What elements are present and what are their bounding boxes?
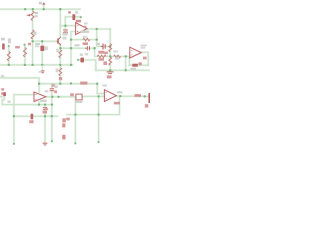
node feedback1 bbox=[70, 38, 72, 40]
wire bias drop x125.7 bbox=[125, 56, 127, 70]
wire output branch x96.7 bbox=[97, 29, 111, 46]
ground GND3 bottom bbox=[43, 143, 48, 145]
wire cap3 bottom vertical bbox=[44, 110, 46, 143]
label grey above fb resistor bbox=[83, 36, 88, 38]
wire chain2 vertical bbox=[24, 45, 26, 65]
label red left x110 upper bbox=[104, 52, 107, 55]
op-amp U1A bbox=[76, 23, 87, 35]
label r2 grey bbox=[33, 32, 36, 35]
opamp1 input polarity marks bbox=[77, 26, 79, 33]
opamp2L marks bbox=[35, 94, 37, 99]
label red below R7 bbox=[98, 58, 104, 60]
wire opamp3 output bbox=[116, 95, 148, 97]
capacitor C2 plates bbox=[63, 30, 68, 34]
label grey above R8 bbox=[113, 50, 117, 52]
wire ground bus y70.3 bbox=[96, 69, 150, 71]
wire vref bus y83.7 bbox=[39, 83, 97, 85]
wire drop x94.6 bbox=[95, 48, 130, 56]
label red below out3 bbox=[114, 102, 120, 105]
wire feedback2 stub bbox=[128, 58, 130, 65]
wire opamp1 plus input bbox=[60, 25, 75, 27]
wire output drop x110 bbox=[109, 29, 111, 70]
label grey cap6 right bbox=[54, 85, 57, 88]
wire opamp2R output bbox=[141, 52, 148, 65]
resistor R3 box bbox=[40, 46, 44, 51]
wire box2 to opamp3 bbox=[82, 95, 104, 97]
node rail2 dots bbox=[8, 64, 10, 66]
resistor R6 vertical zigzag (x110 lower) bbox=[109, 57, 112, 65]
ground GND2 (below rail2) bbox=[41, 71, 45, 73]
wire pot chain vertical bbox=[31, 9, 33, 65]
label grey above pin1 bbox=[8, 38, 11, 43]
wire output branch x96.7 bbox=[97, 29, 111, 46]
label red below right connector bbox=[145, 104, 149, 107]
wire cap4 stub top bbox=[51, 84, 53, 89]
connector right edge bbox=[148, 93, 150, 103]
label grey above cap4 bbox=[96, 43, 100, 45]
label grey above left box bbox=[1, 38, 5, 41]
wire chain1 vertical bbox=[8, 46, 10, 65]
box component B1 (open box) bbox=[76, 94, 82, 100]
capacitor C5 feedback2 box bbox=[132, 64, 138, 67]
label grey below R8 bbox=[115, 57, 119, 59]
wire y114.6 bbox=[67, 96, 120, 115]
wire box chain vertical bbox=[41, 41, 43, 65]
wire cap1 stub bbox=[64, 26, 66, 30]
label red left of y114 wire bbox=[66, 118, 70, 121]
wire box chain vertical bbox=[41, 41, 43, 65]
wire signal mid y96.8 bbox=[46, 97, 75, 144]
wire opamp2L top input bbox=[14, 95, 34, 144]
wire L to top box bbox=[65, 17, 72, 26]
wire feedback1 bbox=[71, 39, 97, 41]
wire opamp2L vminus stub bbox=[38, 102, 40, 105]
wire main bias vertical lower bbox=[59, 45, 61, 84]
wire vref bus y83.7 bbox=[39, 83, 97, 85]
wire opamp2L vplus stub bbox=[38, 84, 40, 92]
label red right of fb2 bbox=[138, 62, 141, 65]
resistor R7 zigzag (y56.4 left) bbox=[97, 55, 106, 58]
wire feedback2 bbox=[129, 64, 148, 66]
node y114.6 bbox=[74, 113, 76, 115]
label red below cap7 bbox=[43, 111, 47, 114]
node gnd wire bbox=[38, 103, 40, 105]
wire vref left y77.9 bbox=[0, 78, 39, 84]
wire y116.2 left bbox=[14, 115, 58, 117]
resistor R4 feedback zigzag bbox=[83, 38, 90, 41]
wire opamp3 top input jog bbox=[97, 84, 104, 94]
opamp2 marks bbox=[131, 50, 133, 55]
wire chain2 vertical bbox=[24, 45, 26, 65]
label grey above apex1 bbox=[84, 22, 88, 24]
label red OUT on wire bbox=[135, 94, 142, 97]
lower resistor zigzag (x60) bbox=[59, 68, 62, 76]
label grey opamp2L name bbox=[40, 100, 47, 103]
label grey small comp y59.9 bbox=[80, 53, 83, 56]
label red below fb resistor bbox=[83, 42, 88, 45]
label grey left lower res x60 bbox=[56, 68, 59, 72]
wire y114.6 bbox=[67, 96, 120, 115]
label grey input jack left bbox=[0, 96, 2, 98]
label red cap4 value bbox=[98, 51, 104, 54]
op-amp U3 bbox=[104, 90, 116, 102]
wire y116.2 left bbox=[14, 115, 58, 117]
label red bottom mid bbox=[62, 135, 65, 140]
wire bias drop x125.7 bbox=[125, 56, 127, 70]
label vcc grey bbox=[39, 2, 42, 5]
label red GND1 text bbox=[107, 75, 112, 78]
wire feedback2 stub bbox=[128, 58, 130, 65]
label grey box chain bbox=[35, 43, 40, 45]
wire opamp2L vplus stub bbox=[38, 84, 40, 92]
wire input jack path bbox=[2, 97, 52, 105]
wire opamp1 output bbox=[87, 28, 110, 30]
wire after top box bbox=[75, 16, 81, 18]
label grey above opamp3 bbox=[102, 84, 106, 86]
node y116 bbox=[13, 115, 15, 117]
wire gnd-cap stub bbox=[44, 105, 46, 108]
wire chain1 vertical bbox=[8, 46, 10, 65]
wire vcc stub bbox=[43, 5, 45, 9]
label red rotated col1 bbox=[62, 118, 65, 122]
label grey below fb2 comp bbox=[130, 68, 136, 70]
label grey left of emitter res bbox=[56, 49, 59, 53]
label red left x110 lower bbox=[103, 61, 107, 65]
wire drop x94.6 bbox=[95, 48, 130, 56]
label grey far left under rail2 bbox=[1, 75, 4, 77]
wire pot chain vertical bbox=[32, 9, 34, 65]
wire rail2 bbox=[0, 64, 73, 66]
wire opamp2R output bbox=[141, 52, 148, 65]
wire input jack path bbox=[2, 97, 52, 105]
wire rail2 bbox=[0, 64, 73, 66]
label pot value grey bbox=[35, 12, 38, 14]
node bias divider bbox=[109, 55, 111, 57]
label grey opamp2 name bbox=[141, 45, 147, 47]
resistor R1 trimmer zigzag bbox=[31, 11, 34, 21]
node emitter bbox=[59, 47, 61, 49]
wire opamp1 plus input bbox=[60, 25, 75, 27]
trimmer arrow bbox=[27, 14, 31, 16]
capacitor C7 plates (x45) bbox=[43, 108, 47, 110]
wire opamp3 top input jog bbox=[97, 84, 104, 94]
node base wire bbox=[31, 40, 33, 42]
resistor R5 vertical zigzag (x110 upper) bbox=[109, 44, 112, 52]
label red ant bbox=[15, 46, 20, 48]
label red on vref wire bbox=[52, 84, 55, 86]
label grey top box bbox=[68, 11, 71, 13]
wire L to top box bbox=[65, 17, 72, 26]
wire ground bus y70.3 bbox=[96, 69, 150, 71]
label red out wire bbox=[143, 57, 147, 60]
wire main bias vertical lower bbox=[59, 45, 61, 84]
transistor Q1 bbox=[57, 37, 61, 46]
label red above vref junction bbox=[59, 77, 62, 80]
wire opamp1 output bbox=[87, 28, 110, 30]
wire drop x98.6 bbox=[97, 96, 99, 142]
wire main bias vertical upper bbox=[59, 9, 61, 37]
label grey IN net bbox=[8, 101, 11, 103]
node opamp1 input bbox=[64, 25, 66, 27]
component in y116 wire bbox=[31, 114, 34, 120]
wire opamp1 minus input bbox=[71, 32, 76, 65]
wire feedback1 bbox=[71, 38, 97, 40]
wire small comp y59.9 bbox=[78, 60, 96, 70]
wire main bias vertical upper bbox=[59, 9, 61, 37]
wire top rail VCC bbox=[0, 8, 80, 10]
wire signal mid y96.8 bbox=[46, 97, 75, 144]
wire base y41 bbox=[33, 40, 57, 42]
wire opamp1 minus input bbox=[71, 32, 76, 65]
capacitor C4 (in y46.4 wire, tall) bbox=[101, 43, 106, 49]
resistor chain1 zigzag bbox=[7, 52, 10, 61]
capacitor C1 (top middle, polarized box) bbox=[72, 14, 75, 20]
wire vref left y77.9 bbox=[0, 78, 39, 84]
wire top rail VCC bbox=[0, 8, 80, 10]
op-amp U2B right bbox=[130, 47, 141, 58]
wire box2 to opamp3 bbox=[82, 95, 104, 97]
pin dots bbox=[8, 45, 10, 47]
wire base y41 bbox=[33, 40, 57, 42]
wire drop x98.6 bbox=[98, 96, 100, 142]
label red cap6 value bbox=[54, 90, 57, 93]
capacitor C3 (in y48 wire) bbox=[85, 46, 90, 50]
label grey box2 below bbox=[75, 101, 82, 103]
wire gnd-cap stub bbox=[44, 105, 46, 108]
power VCC symbol bbox=[42, 2, 45, 4]
label red pot name bbox=[28, 43, 31, 46]
wire vcc stub bbox=[43, 5, 45, 9]
input jack box bbox=[3, 92, 6, 96]
node mid signal bbox=[51, 96, 53, 98]
op-amp U2A left bbox=[34, 92, 46, 102]
wire output drop x110 bbox=[109, 29, 111, 70]
wire cap3 bottom vertical bbox=[44, 110, 46, 143]
capacitor C6 plates (x51.8) bbox=[50, 89, 55, 91]
diode/comp small (y59.9) bbox=[80, 58, 84, 63]
resistor R2 zigzag bbox=[31, 30, 34, 39]
label red above opamp1 bbox=[76, 20, 81, 23]
node vref bus bbox=[38, 83, 40, 85]
ground GND1 bbox=[107, 72, 114, 74]
label grey opamp1 name bbox=[81, 30, 90, 33]
resistor R8 zigzag (y56.4 right) bbox=[114, 55, 121, 58]
label grey above cap3 bbox=[74, 44, 79, 46]
wire feedback2 bbox=[129, 64, 148, 66]
resistor chain2 zigzag bbox=[23, 48, 26, 57]
label red below comp y116 bbox=[29, 120, 33, 123]
wire cap4 bottom vertical bbox=[51, 91, 53, 141]
label grey opamp3 name bbox=[117, 91, 122, 93]
node out1 bbox=[96, 28, 98, 30]
wire y48 coupling bbox=[60, 47, 94, 49]
wire cap4 stub top bbox=[51, 84, 53, 89]
wire opamp2L vminus stub bbox=[38, 102, 40, 105]
wire opamp2L top input bbox=[14, 95, 34, 144]
opamp3 marks bbox=[106, 93, 108, 99]
wire y48 coupling bbox=[60, 47, 94, 49]
node rail dots bbox=[24, 8, 26, 10]
connector box left bbox=[2, 44, 4, 50]
label transistor name grey bbox=[62, 33, 67, 36]
wire opamp3 output bbox=[116, 95, 148, 97]
label red left of box2 bbox=[70, 93, 74, 96]
label grey near corner x39 bbox=[39, 71, 42, 73]
label red below gnd2 bbox=[45, 108, 48, 110]
wire cap1 stub bbox=[64, 26, 66, 30]
wire cap4 bottom vertical bbox=[51, 91, 53, 141]
label grey above opamp2L bbox=[45, 90, 49, 92]
emitter resistor zigzag bbox=[59, 50, 62, 58]
label red input jack top bbox=[1, 88, 4, 90]
node y48 bbox=[70, 47, 72, 49]
label red net name on vref bus bbox=[80, 82, 87, 85]
wire after top box bbox=[75, 16, 81, 18]
wire small comp y59.9 bbox=[78, 60, 96, 70]
